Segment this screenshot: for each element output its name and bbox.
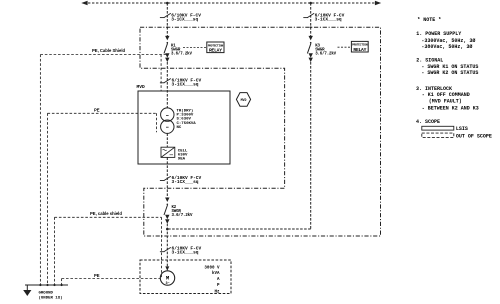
svg-text:(MVD FAULT): (MVD FAULT): [429, 99, 462, 105]
node K2/K3 junction: [166, 228, 169, 231]
svg-text:3.6/7.2kV: 3.6/7.2kV: [171, 52, 192, 57]
node main line at enclosure top: [166, 26, 168, 28]
svg-text:2. SIGNAL: 2. SIGNAL: [416, 58, 443, 64]
value label motor ratings: [204, 267, 220, 295]
svg-text:OUT OF SCOPE: OUT OF SCOPE: [456, 133, 492, 139]
value label cable C4: [172, 175, 202, 185]
svg-text:RELAY: RELAY: [353, 47, 366, 53]
wire K3 branch: bus to K3: [310, 3, 312, 36]
svg-text:* NOTE *: * NOTE *: [417, 17, 441, 23]
wire K3 down leg: [310, 62, 312, 229]
svg-text:3~: 3~: [165, 282, 169, 286]
svg-text:-380Vac, 50Hz, 3Ø: -380Vac, 50Hz, 3Ø: [421, 43, 472, 50]
ground symbol: [23, 290, 31, 296]
svg-text:PROTECTION: PROTECTION: [352, 44, 368, 47]
legend box OUT OF SCOPE (dashed): [422, 133, 454, 137]
svg-text:3-1CX___sq: 3-1CX___sq: [172, 250, 199, 256]
svg-text:PE: PE: [94, 273, 100, 278]
wire K1 to relay (dashed signal): [183, 47, 207, 49]
svg-text:GROUND: GROUND: [39, 292, 54, 296]
svg-text:RELAY: RELAY: [209, 47, 222, 53]
value label cable C5: [172, 246, 202, 256]
cable mark C4 (slash): [160, 176, 171, 180]
wire PE 2 (MVD transformer shield): [48, 113, 157, 285]
svg-text:-3300Vac, 50Hz, 3Ø: -3300Vac, 50Hz, 3Ø: [421, 37, 475, 44]
svg-text:1. POWER SUPPLY: 1. POWER SUPPLY: [416, 31, 461, 37]
arrow bus right end: [375, 1, 381, 6]
svg-text:3-1CX___sq: 3-1CX___sq: [172, 82, 199, 88]
wire cell to K2: [166, 157, 168, 197]
svg-text:3000 V: 3000 V: [204, 267, 220, 271]
arrow into motor: [165, 266, 169, 270]
wire K1 to MVD input: [166, 62, 168, 108]
label K3 SWGR 3.6/7.2kV: [315, 44, 336, 56]
value label cable C2: [315, 12, 345, 22]
motor enclosure box (dashed): [140, 260, 231, 294]
label K2 SWGR 3.6/7.2kV: [172, 206, 193, 218]
svg-text:PE, cable shield: PE, cable shield: [90, 211, 122, 216]
svg-text:PROTECTION: PROTECTION: [208, 44, 224, 47]
arrow bus left end: [81, 1, 87, 6]
svg-text:4. SCOPE: 4. SCOPE: [416, 119, 440, 125]
wire K3 to relay (dashed signal): [338, 46, 352, 48]
wire PE 4 (motor frame): [62, 279, 161, 286]
svg-text:kVA: kVA: [212, 271, 220, 276]
wire PE cable shield 1 (K1 cable): [40, 55, 166, 286]
value label cable C3: [172, 78, 202, 88]
wire K2 to motor: [166, 224, 168, 267]
wire incoming 3300V bus (dashed, top): [84, 2, 378, 4]
MVD cabinet box (solid, LSIS scope): [138, 91, 230, 164]
svg-text:3. INTERLOCK: 3. INTERLOCK: [416, 86, 452, 92]
value label cell: [178, 149, 188, 161]
node bus/K3 branch: [309, 2, 312, 5]
svg-text:(UNDER 1Ω): (UNDER 1Ω): [39, 296, 63, 301]
motor M: [160, 271, 174, 286]
notes column: [416, 17, 479, 125]
cable mark C2 (slash): [303, 13, 314, 17]
transformer T (two windings): [161, 108, 174, 133]
value label transformer TR(DRY): [177, 108, 197, 130]
node PE/ground joints: [39, 284, 62, 286]
svg-text:MVD: MVD: [241, 98, 247, 102]
value label cable C1: 6/10KV F-CV 3-1CX sq: [171, 12, 201, 22]
breaker K3 (drawout, chevrons + blade): [307, 36, 313, 62]
cable mark C3 (slash): [160, 79, 171, 83]
breaker K1 (drawout, chevrons + blade): [164, 36, 170, 62]
wire transformer to cell: [166, 133, 168, 147]
svg-text:3-1CX___sq: 3-1CX___sq: [172, 179, 199, 185]
out-of-scope switchgear enclosure (dashed polygon): [140, 27, 381, 236]
converter cell box: [161, 147, 175, 157]
svg-text:PE: PE: [94, 108, 100, 113]
wire PE cable shield 3 (motor cable): [55, 217, 162, 285]
svg-text:- BETWEEN K2 AND K3: - BETWEEN K2 AND K3: [422, 106, 479, 112]
legend box LSIS (solid): [422, 126, 454, 130]
cable mark C5 (slash): [160, 247, 171, 251]
node K3 line at enclosure top: [310, 26, 312, 28]
svg-text:- K1 OFF COMMAND: - K1 OFF COMMAND: [422, 92, 470, 98]
svg-text:3.6/7.2kV: 3.6/7.2kV: [315, 52, 336, 57]
svg-text:- SWGR K2 ON STATUS: - SWGR K2 ON STATUS: [421, 70, 478, 76]
wire K3 to junction: [167, 228, 310, 230]
svg-text:3-1CX___sq: 3-1CX___sq: [315, 17, 342, 23]
svg-text:3.6/7.2kV: 3.6/7.2kV: [172, 213, 193, 218]
protection relay box 1: [207, 42, 224, 53]
svg-text:- SWGR K1 ON STATUS: - SWGR K1 ON STATUS: [421, 64, 478, 70]
breaker K2 (drawout, chevrons + blade): [164, 198, 170, 224]
label GROUND (UNDER 1 ohm): [39, 292, 63, 301]
protection relay box 2: [351, 41, 368, 52]
svg-text:PE, Cable Shield: PE, Cable Shield: [92, 48, 125, 53]
svg-text:Hz: Hz: [214, 290, 220, 294]
svg-text:MVD: MVD: [137, 84, 146, 90]
svg-text:NC: NC: [177, 126, 182, 130]
svg-text:LSIS: LSIS: [456, 126, 468, 132]
label K1 SWGR 3.6/7.2kV: [171, 44, 192, 56]
cable mark C1 (slash): [160, 13, 171, 17]
ground bus: [25, 285, 68, 290]
node bus/K1 branch: [166, 2, 169, 5]
wire K1 branch: bus to K1: [166, 3, 168, 36]
svg-text:3-1CX___sq: 3-1CX___sq: [171, 17, 198, 23]
svg-text:9EA: 9EA: [178, 157, 186, 161]
node MVD tag hexagon: [236, 93, 250, 107]
